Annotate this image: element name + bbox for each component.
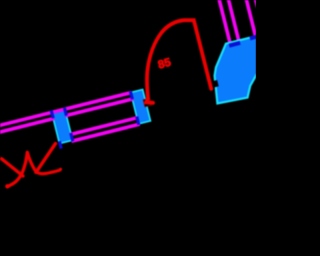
wire: metal2 vertical line L1 (top right pair A) <box>219 0 230 43</box>
metal1 cell VL (left blue bar) <box>52 109 73 143</box>
contact C4 (VL left bottom, via bar) <box>58 141 63 149</box>
wire: metal2 bottom line C (between VL and VR) <box>70 118 138 135</box>
red scribble stroke S2 (peak swoosh down-left) <box>7 152 27 186</box>
wire: metal2 bottom line D (between VL and VR) <box>71 124 139 141</box>
wire: metal2 vertical line L2 (top right pair A) <box>228 0 239 41</box>
metal1 polygon (big blue blob, top right) <box>215 36 258 104</box>
rotated layout group (bus + cells) <box>0 87 156 180</box>
red poly wire: arc from VR via up and over to polygon <box>146 20 211 103</box>
black via square on VR right edge <box>143 98 151 106</box>
wire: metal2 vertical line L4 (clipped at right edge) <box>255 0 258 9</box>
wire: metal2 bus line A (upper, from left edge through VL to VR) <box>0 92 132 142</box>
svg-text:85: 85 <box>157 57 173 72</box>
contact NC1 (polygon top, under pair A) <box>229 41 241 48</box>
black label square on polygon left edge <box>212 80 219 88</box>
red scribble stroke S1 (left diagonal) <box>2 159 23 176</box>
contact NC2 (polygon top, under pair B at right edge) <box>249 34 259 40</box>
contact C6 (VR left bottom, via bar) <box>135 116 140 125</box>
contact C5 (VR left top, via bar) <box>129 91 134 100</box>
wire: metal2 vertical line L3 (top right pair B) <box>246 0 256 37</box>
contact C1 (VL left top, via bar) <box>50 110 55 119</box>
wire: metal2 bus line B (mid segment, VL to VR) <box>65 99 133 116</box>
red scribble stroke S3 (right arm and horizontal tail) <box>27 152 60 173</box>
red poly wire: connector from VL bottom contact to scribble <box>36 144 56 173</box>
wire: metal2 bus line B (left segment, from left edge to VL) <box>0 118 54 149</box>
metal1 cell VR (right blue bar) <box>131 90 151 124</box>
contact C2 (VL right top, via bar) <box>63 107 68 116</box>
contact C3 (VL right bottom, via bar) <box>69 133 74 142</box>
red scribble blob at S2 end <box>5 184 9 188</box>
